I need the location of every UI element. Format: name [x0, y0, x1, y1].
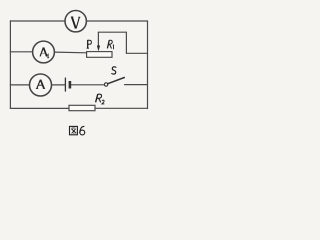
wire: right rail — [147, 21, 149, 109]
wire: ammeter A to battery — [51, 84, 64, 86]
label R1 (rheostat) — [107, 40, 113, 49]
wire: A1 to rheostat left terminal — [54, 51, 86, 54]
wire: slider riser vertical — [97, 32, 99, 46]
resistor R2 (box) — [69, 105, 95, 110]
wire: step down vertical — [125, 32, 127, 53]
battery cell: short thick plate (negative) — [69, 81, 72, 89]
voltmeter V — [65, 11, 86, 32]
label P (slider) — [87, 40, 92, 48]
label R2 — [96, 94, 105, 104]
battery cell: long plate (positive) — [64, 78, 66, 92]
wire: switch to right rail — [125, 84, 148, 86]
switch S blade — [108, 78, 125, 84]
label S (switch) — [112, 67, 117, 74]
wire: slider top horizontal — [98, 31, 126, 33]
wire: step to right rail — [126, 52, 147, 54]
ammeter A — [30, 74, 52, 96]
wire: bottom row right (R2 to right rail) — [95, 107, 148, 109]
caption: hanzi TU (figure) drawn as strokes — [70, 126, 78, 134]
wire: A1 row left (rail to ammeter A1) — [10, 51, 32, 53]
wire: battery to switch — [71, 84, 104, 86]
wire: A row left (rail to ammeter A) — [10, 84, 29, 86]
ammeter A1 — [33, 41, 55, 63]
caption: figure number 6 — [80, 126, 85, 134]
wire: left rail — [9, 21, 11, 109]
rheostat slider arrowhead — [97, 46, 100, 52]
switch S terminal (open circle) — [104, 83, 107, 86]
rheostat R1 body (resistance box) — [87, 52, 112, 58]
wire: top row left (rail to voltmeter) — [10, 20, 65, 22]
wire: bottom row left (rail to R2) — [10, 107, 69, 109]
wire: top row right (voltmeter to right rail) — [87, 20, 148, 22]
